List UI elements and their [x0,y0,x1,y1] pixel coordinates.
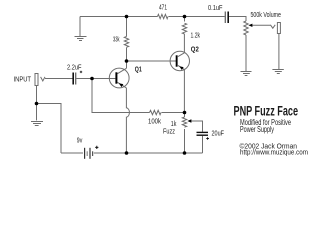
svg-text:1.2k: 1.2k [191,33,201,40]
svg-text:500k Volume: 500k Volume [251,12,282,19]
svg-text:Q2: Q2 [191,46,199,53]
svg-text:20uF: 20uF [212,131,225,138]
svg-text:1k: 1k [171,121,177,128]
svg-text:2.2uF: 2.2uF [67,65,82,72]
svg-text:33k: 33k [113,37,120,44]
svg-text:0.1uF: 0.1uF [208,5,223,12]
svg-text:9v: 9v [77,138,83,145]
svg-text:http://www.muzique.com: http://www.muzique.com [240,148,308,157]
svg-text:PNP Fuzz Face: PNP Fuzz Face [234,104,299,119]
svg-text:100k: 100k [148,119,161,126]
svg-text:Q1: Q1 [135,66,142,73]
svg-text:471: 471 [159,5,167,12]
svg-text:Power Supply: Power Supply [240,125,274,134]
svg-text:Fuzz: Fuzz [163,129,175,136]
svg-text:INPUT: INPUT [14,77,32,84]
